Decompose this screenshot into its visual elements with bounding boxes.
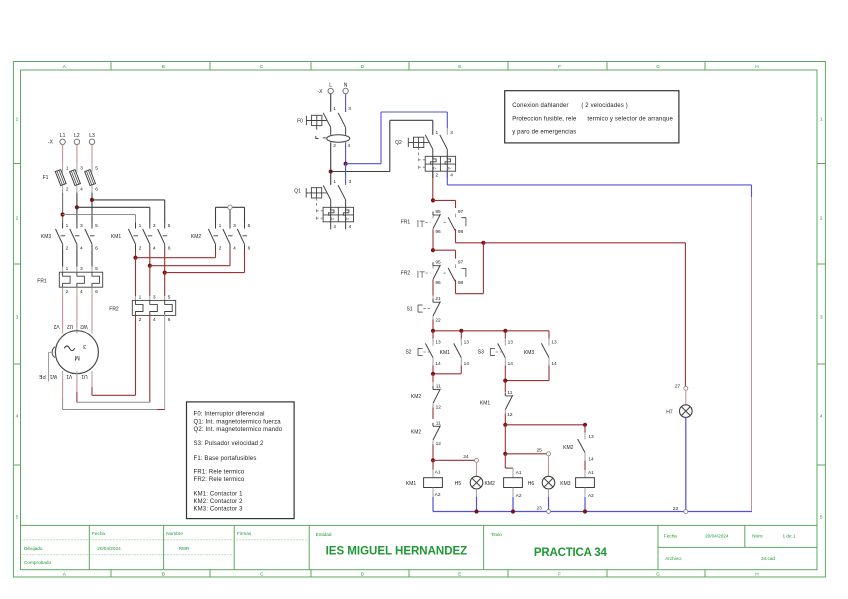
svg-text:H6: H6: [528, 481, 535, 487]
svg-text:20/04/2024: 20/04/2024: [705, 533, 729, 538]
svg-text:KM3: Contactor 3: KM3: Contactor 3: [194, 506, 244, 512]
svg-text:L: L: [329, 82, 332, 88]
svg-text:6: 6: [95, 246, 98, 252]
svg-text:E: E: [458, 64, 461, 70]
svg-text:14: 14: [551, 361, 557, 367]
svg-text:KM2: KM2: [411, 430, 422, 436]
svg-text:12: 12: [436, 441, 442, 447]
svg-text:KM3: KM3: [524, 350, 535, 356]
svg-text:5: 5: [16, 515, 19, 521]
svg-text:A2: A2: [435, 492, 441, 498]
svg-text:1: 1: [66, 166, 69, 172]
svg-text:PRACTICA 34: PRACTICA 34: [534, 547, 608, 559]
svg-text:5: 5: [820, 515, 823, 521]
svg-text:6: 6: [95, 289, 98, 295]
svg-text:A1: A1: [516, 470, 522, 476]
svg-text:4: 4: [153, 317, 156, 323]
svg-text:1: 1: [820, 117, 823, 123]
svg-text:1: 1: [333, 106, 336, 112]
svg-text:C: C: [260, 572, 264, 578]
svg-text:2: 2: [333, 224, 336, 230]
svg-text:96: 96: [435, 229, 441, 235]
svg-text:N: N: [344, 82, 348, 88]
svg-text:B: B: [162, 64, 165, 70]
svg-text:13: 13: [464, 339, 470, 345]
svg-text:98: 98: [458, 280, 464, 286]
svg-text:13: 13: [435, 339, 441, 345]
svg-text:3: 3: [153, 294, 156, 300]
svg-text:4: 4: [450, 172, 453, 178]
svg-text:F0: F0: [297, 119, 303, 125]
svg-text:1 de 1: 1 de 1: [782, 533, 795, 538]
svg-text:2: 2: [219, 246, 222, 252]
svg-text:W1: W1: [49, 373, 57, 379]
svg-text:2: 2: [139, 317, 142, 323]
svg-text:3: 3: [450, 130, 453, 136]
svg-text:4: 4: [80, 246, 83, 252]
svg-text:KM2: KM2: [485, 481, 496, 487]
svg-text:4: 4: [820, 414, 823, 420]
svg-text:RMR: RMR: [179, 546, 190, 551]
svg-text:S1: S1: [406, 307, 412, 313]
svg-text:S3: Pulsador velocidad 2: S3: Pulsador velocidad 2: [194, 441, 264, 447]
svg-text:5: 5: [95, 266, 98, 272]
svg-text:11: 11: [436, 384, 441, 390]
svg-text:PE: PE: [38, 373, 45, 379]
svg-text:D: D: [361, 572, 365, 578]
svg-text:4: 4: [80, 187, 83, 193]
svg-text:6: 6: [95, 187, 98, 193]
svg-text:22: 22: [435, 318, 441, 324]
svg-text:S2: S2: [405, 350, 411, 356]
svg-text:3: 3: [233, 223, 236, 229]
svg-text:KM1: KM1: [406, 481, 417, 487]
svg-text:20/04/2024: 20/04/2024: [97, 546, 121, 551]
svg-text:FR1: FR1: [401, 220, 411, 226]
svg-text:14: 14: [435, 361, 441, 367]
svg-text:13: 13: [551, 339, 557, 345]
svg-text:V1: V1: [66, 373, 72, 379]
svg-text:L2: L2: [74, 133, 80, 139]
svg-text:2: 2: [820, 216, 823, 222]
svg-text:Conexion dahlander ( 2 v: Conexion dahlander ( 2 velocidades ): [512, 103, 628, 109]
svg-text:H5: H5: [455, 481, 462, 487]
svg-text:IES MIGUEL HERNANDEZ: IES MIGUEL HERNANDEZ: [326, 546, 468, 558]
svg-text:S3: S3: [478, 350, 484, 356]
svg-text:95: 95: [435, 260, 441, 266]
svg-text:H: H: [755, 64, 759, 70]
svg-text:F: F: [558, 64, 561, 70]
svg-text:5: 5: [168, 294, 171, 300]
svg-text:2: 2: [16, 216, 19, 222]
svg-text:C: C: [260, 64, 264, 70]
svg-text:W2: W2: [80, 323, 88, 329]
svg-text:2: 2: [333, 143, 336, 149]
svg-text:F: F: [558, 572, 561, 578]
svg-text:A2: A2: [588, 493, 594, 499]
svg-text:14: 14: [588, 456, 594, 462]
svg-text:F0: Interruptor diferencial: F0: Interruptor diferencial: [194, 412, 265, 418]
svg-text:3: 3: [820, 315, 823, 321]
svg-text:14: 14: [508, 361, 514, 367]
svg-text:U2: U2: [67, 323, 74, 329]
svg-text:E: E: [458, 572, 461, 578]
svg-text:1: 1: [139, 223, 142, 229]
svg-text:KM1: Contactor 1: KM1: Contactor 1: [194, 492, 244, 498]
svg-text:21: 21: [435, 296, 441, 302]
svg-text:D: D: [361, 64, 365, 70]
svg-text:27: 27: [675, 383, 681, 389]
svg-text:Fecha: Fecha: [664, 533, 677, 538]
svg-text:5: 5: [168, 223, 171, 229]
svg-text:Q1: Int. magnetotermico fuerza: Q1: Int. magnetotermico fuerza: [194, 419, 282, 425]
svg-text:2: 2: [66, 246, 69, 252]
svg-text:Q1: Q1: [294, 189, 301, 195]
svg-text:KM2: KM2: [563, 445, 574, 451]
svg-text:5: 5: [95, 166, 98, 172]
svg-text:KM1: KM1: [111, 234, 122, 240]
svg-text:Q2: Int. magnetotermico mando: Q2: Int. magnetotermico mando: [194, 427, 283, 433]
svg-text:11: 11: [507, 390, 512, 396]
svg-text:FR1: FR1: [37, 278, 47, 284]
svg-text:Proteccion fusible, rele: Proteccion fusible, rele termico y selec…: [512, 117, 673, 123]
svg-text:6: 6: [248, 246, 251, 252]
svg-text:H7: H7: [666, 409, 673, 415]
svg-text:6: 6: [168, 317, 171, 323]
svg-text:1: 1: [66, 266, 69, 272]
svg-text:Titulo: Titulo: [491, 532, 503, 537]
svg-text:4: 4: [80, 289, 83, 295]
svg-text:y paro de emergencias: y paro de emergencias: [512, 130, 576, 136]
svg-text:2: 2: [435, 172, 438, 178]
svg-text:3: 3: [80, 266, 83, 272]
svg-text:1: 1: [66, 223, 69, 229]
svg-text:3: 3: [83, 343, 86, 349]
svg-text:Entidad: Entidad: [316, 532, 332, 537]
svg-text:KM3: KM3: [41, 234, 52, 240]
svg-text:Dibujado: Dibujado: [24, 546, 43, 551]
svg-text:B: B: [162, 572, 165, 578]
svg-text:Fecha: Fecha: [92, 531, 105, 536]
svg-text:3: 3: [80, 166, 83, 172]
svg-text:5: 5: [248, 223, 251, 229]
svg-text:KM3: KM3: [560, 481, 571, 487]
svg-text:FR2: Rele termico: FR2: Rele termico: [194, 477, 245, 483]
svg-text:3: 3: [349, 179, 352, 185]
svg-text:KM2: KM2: [411, 394, 422, 400]
svg-text:Núm:: Núm:: [752, 533, 763, 538]
svg-text:1: 1: [333, 179, 336, 185]
svg-text:V2: V2: [53, 323, 59, 329]
svg-text:G: G: [656, 572, 660, 578]
svg-text:F1: Base portafusibles: F1: Base portafusibles: [194, 456, 257, 462]
svg-text:23: 23: [537, 506, 543, 512]
svg-text:M: M: [74, 354, 79, 361]
svg-text:12: 12: [436, 405, 442, 411]
svg-text:24: 24: [463, 454, 469, 460]
svg-text:4: 4: [233, 246, 236, 252]
svg-text:Archivo:: Archivo:: [665, 556, 682, 561]
svg-text:U1: U1: [81, 373, 88, 379]
svg-text:25: 25: [537, 448, 543, 454]
svg-text:2: 2: [66, 187, 69, 193]
svg-text:Q2: Q2: [395, 140, 402, 146]
svg-text:H: H: [755, 572, 759, 578]
svg-text:98: 98: [458, 229, 464, 235]
svg-text:A1: A1: [435, 469, 441, 475]
svg-text:F1: F1: [43, 175, 49, 181]
svg-text:97: 97: [458, 260, 464, 266]
svg-text:3: 3: [80, 223, 83, 229]
svg-text:L3: L3: [89, 133, 95, 139]
svg-text:1: 1: [435, 130, 438, 136]
svg-text:L1: L1: [60, 133, 66, 139]
svg-text:KM2: Contactor 2: KM2: Contactor 2: [194, 499, 244, 505]
svg-text:-X: -X: [48, 139, 54, 145]
svg-text:2: 2: [66, 289, 69, 295]
svg-text:4: 4: [347, 143, 350, 149]
svg-text:95: 95: [435, 209, 441, 215]
svg-text:2: 2: [139, 246, 142, 252]
svg-text:12: 12: [507, 412, 513, 418]
svg-text:KM1: KM1: [480, 401, 491, 407]
svg-text:1: 1: [16, 117, 19, 123]
svg-text:Comprobado: Comprobado: [24, 560, 51, 565]
svg-text:13: 13: [508, 339, 514, 345]
svg-text:6: 6: [168, 246, 171, 252]
svg-text:A2: A2: [516, 493, 522, 499]
svg-text:G: G: [656, 64, 660, 70]
svg-text:Nombre: Nombre: [166, 531, 183, 536]
svg-text:KM1: KM1: [440, 350, 451, 356]
svg-text:FR2: FR2: [401, 270, 411, 276]
svg-text:A1: A1: [588, 470, 594, 476]
svg-text:3: 3: [348, 106, 351, 112]
svg-text:34.cad: 34.cad: [761, 556, 775, 561]
svg-text:11: 11: [436, 420, 441, 426]
svg-text:1: 1: [219, 223, 222, 229]
svg-text:FR1: Rele termico: FR1: Rele termico: [194, 470, 245, 476]
svg-text:-X: -X: [318, 89, 324, 95]
svg-text:FR2: FR2: [109, 306, 119, 312]
svg-text:Firmas: Firmas: [237, 531, 252, 536]
svg-text:13: 13: [588, 434, 594, 440]
svg-text:3: 3: [153, 223, 156, 229]
svg-text:4: 4: [16, 414, 19, 420]
svg-text:KM2: KM2: [191, 234, 202, 240]
svg-text:4: 4: [153, 246, 156, 252]
svg-text:5: 5: [95, 223, 98, 229]
svg-text:1: 1: [139, 294, 142, 300]
svg-text:4: 4: [349, 224, 352, 230]
svg-text:97: 97: [458, 209, 464, 215]
svg-text:96: 96: [435, 280, 441, 286]
svg-text:14: 14: [464, 361, 470, 367]
svg-text:3: 3: [16, 315, 19, 321]
